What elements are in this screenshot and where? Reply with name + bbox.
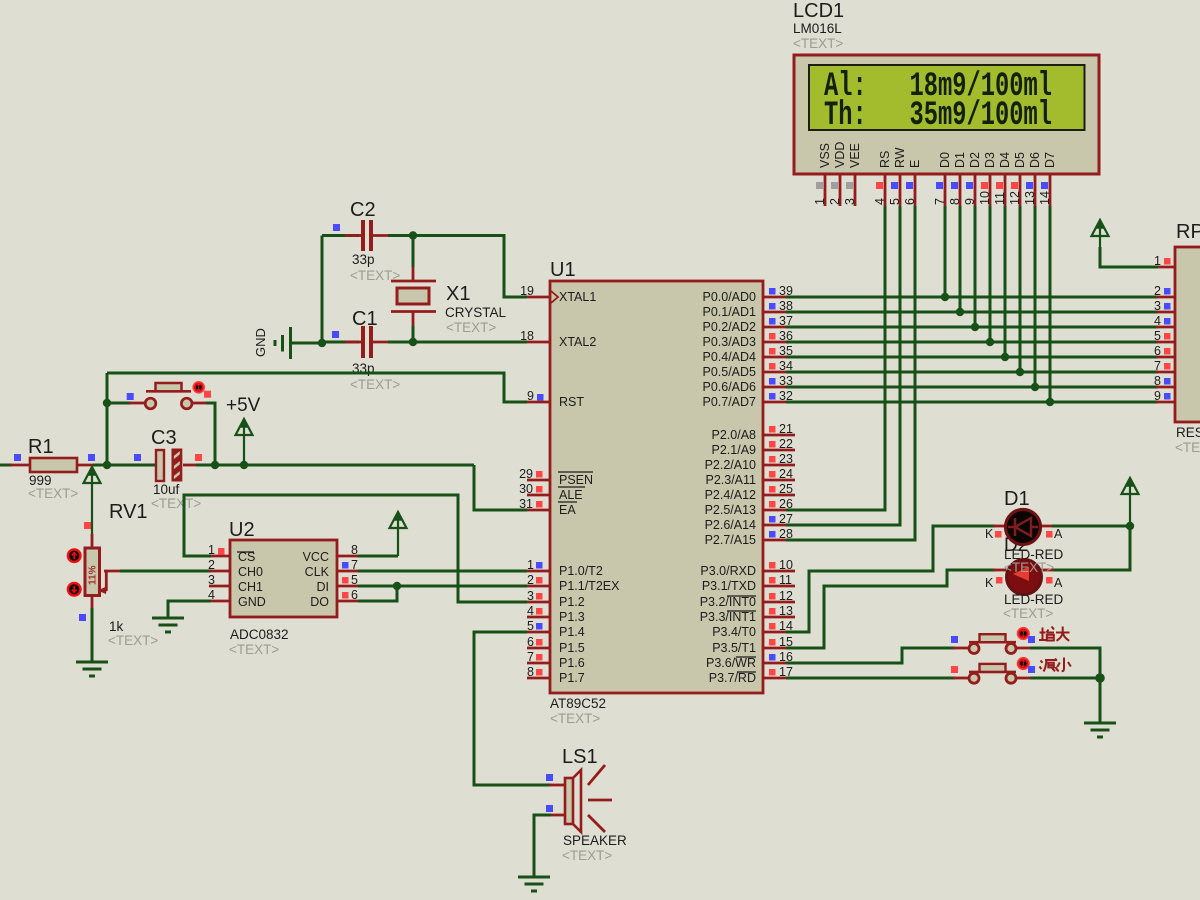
svg-text:3: 3: [208, 573, 215, 587]
svg-text:PSEN: PSEN: [559, 473, 593, 487]
svg-text:LM016L: LM016L: [793, 21, 842, 36]
svg-text:CLK: CLK: [305, 565, 330, 579]
speaker LS1: [546, 746, 627, 863]
U2 pin 4 GND: [208, 588, 230, 602]
svg-text:24: 24: [779, 467, 793, 481]
svg-text:XTAL1: XTAL1: [559, 290, 596, 304]
capacitor C2 33p: [333, 199, 400, 283]
svg-text:<TEXT>: <TEXT>: [1175, 440, 1200, 455]
svg-text:<TEXT>: <TEXT>: [1003, 606, 1053, 621]
microcontroller U1 AT89C52 body: [550, 259, 763, 726]
U2 pin 6 DO: [337, 588, 360, 602]
svg-text:D1: D1: [953, 152, 967, 168]
ground below speaker: [518, 876, 550, 879]
svg-text:6: 6: [527, 635, 534, 649]
RP1 pin 3: [1154, 299, 1170, 313]
junction D2/P0.2: [971, 323, 979, 331]
svg-text:P0.4/AD4: P0.4/AD4: [702, 350, 756, 364]
wire GND node to C1 left: [322, 341, 359, 344]
svg-text:7: 7: [351, 558, 358, 572]
svg-text:VCC: VCC: [303, 550, 329, 564]
svg-text:P1.4: P1.4: [559, 625, 585, 639]
RV1 wiper arrow to U2 CH0: [98, 571, 123, 594]
svg-text:P3.5/T1: P3.5/T1: [712, 641, 756, 655]
U1 pin 29 PSEN: [519, 467, 593, 487]
ground GND power symbol: [253, 327, 291, 359]
svg-text:3: 3: [1154, 299, 1161, 313]
wire P0.1 bus row: [786, 311, 1158, 314]
junction D5/P0.5: [1016, 368, 1024, 376]
svg-text:P2.0/A8: P2.0/A8: [712, 428, 757, 442]
svg-text:3: 3: [843, 198, 857, 205]
wire P0.0 bus row: [786, 296, 1158, 299]
junction LED anode node: [1126, 522, 1134, 530]
wire GND symbol to node: [292, 342, 322, 345]
svg-text:2: 2: [208, 558, 215, 572]
junction D7/P0.7: [1046, 398, 1054, 406]
wire LCD RW to U1 P2.6: [786, 206, 900, 525]
wire LCD D6 to P0.6: [1034, 206, 1037, 387]
svg-text:<TEXT>: <TEXT>: [446, 320, 496, 335]
junction R1/C3 node: [103, 461, 111, 469]
svg-text:VEE: VEE: [848, 143, 862, 168]
wire C2 left down to GND node: [321, 236, 324, 344]
power +5V arrow: [226, 395, 261, 465]
LCD pin 5 RW: [888, 147, 907, 206]
ground below U2: [152, 617, 184, 620]
svg-text:P3.1/TXD: P3.1/TXD: [702, 579, 756, 593]
LCD pin 2 VDD: [828, 142, 847, 206]
wire RV1 wiper to U2 CH0: [120, 570, 211, 573]
svg-text:RP1: RP1: [1176, 221, 1200, 243]
svg-text:D6: D6: [1028, 152, 1042, 168]
power arrow above D1: [1122, 478, 1139, 526]
wire LCD D7 to P0.7: [1049, 206, 1052, 402]
svg-text:GND: GND: [253, 328, 268, 357]
svg-text:CH0: CH0: [238, 565, 263, 579]
U1 pin 17 P3.7/RD: [709, 665, 795, 685]
svg-text:EA: EA: [559, 503, 576, 517]
svg-text:<TEXT>: <TEXT>: [28, 486, 78, 501]
svg-text:P2.7/A15: P2.7/A15: [705, 533, 756, 547]
wire C2 right to node: [373, 234, 390, 237]
push button reset: [127, 382, 211, 409]
svg-text:4: 4: [1154, 314, 1161, 328]
LCD pin 11 D4: [993, 152, 1012, 206]
svg-text:AT89C52: AT89C52: [550, 696, 606, 711]
svg-text:1: 1: [813, 198, 827, 205]
RP1 pin 2: [1154, 284, 1170, 298]
wire power to RP1 pin 1: [1100, 247, 1158, 267]
wire P0.2 bus row: [786, 326, 1158, 329]
ground below RV1: [76, 661, 108, 664]
svg-text:RESPACK-8: RESPACK-8: [1176, 425, 1200, 440]
wire left edge to R1: [0, 464, 12, 467]
svg-text:RW: RW: [893, 147, 907, 168]
svg-text:<TEXT>: <TEXT>: [350, 377, 400, 392]
LCD pin 10 D3: [978, 152, 997, 206]
wire LCD D1 to P0.1: [959, 206, 962, 312]
RP1 pin 1: [1154, 254, 1175, 268]
wire U2 CLK to U1 P1.0: [358, 570, 527, 573]
U1 pin 11 P3.1/TXD: [702, 573, 795, 593]
resistor R1 999: [14, 436, 95, 501]
svg-text:P2.6/A14: P2.6/A14: [705, 518, 756, 532]
svg-text:P0.1/AD1: P0.1/AD1: [702, 305, 756, 319]
LCD pin 3 VEE: [843, 143, 862, 206]
svg-text:5: 5: [888, 198, 902, 205]
svg-text:23: 23: [779, 452, 793, 466]
U1 pin 37 P0.2/AD2: [702, 314, 795, 334]
svg-text:10: 10: [779, 558, 793, 572]
svg-text:E: E: [908, 160, 922, 168]
svg-text:9: 9: [963, 198, 977, 205]
U1 pin 6 P1.5: [527, 635, 585, 655]
svg-text:12: 12: [779, 589, 793, 603]
wire U1 P3.5 to LED D2 cathode: [786, 570, 995, 648]
U1 pin 4 P1.3: [527, 604, 585, 624]
svg-text:K: K: [985, 527, 994, 541]
U2 pin 2 CH0: [208, 558, 230, 572]
svg-text:10: 10: [978, 191, 992, 205]
svg-text:ADC0832: ADC0832: [230, 627, 289, 642]
power arrow above U2 VCC: [390, 512, 407, 528]
svg-text:29: 29: [519, 467, 533, 481]
wire U2 DO to DI node: [358, 586, 397, 601]
svg-text:P1.0/T2: P1.0/T2: [559, 564, 603, 578]
junction D0/P0.0: [941, 293, 949, 301]
wire bottom node to XTAL2: [413, 341, 527, 344]
svg-text:P1.6: P1.6: [559, 656, 585, 670]
U1 pin 3 P1.2: [527, 589, 585, 609]
RV1 actuator knobs: [68, 549, 81, 595]
wire node to ground: [1099, 678, 1102, 723]
svg-text:K: K: [985, 576, 994, 590]
svg-text:1: 1: [527, 558, 534, 572]
svg-text:1k: 1k: [109, 619, 124, 634]
svg-text:U1: U1: [550, 259, 576, 281]
svg-text:14: 14: [1038, 191, 1052, 205]
svg-text:25: 25: [779, 482, 793, 496]
U1 pin 34 P0.5/AD5: [702, 359, 795, 379]
wire P0.5 bus row: [786, 371, 1158, 374]
wire P0.4 bus row: [786, 356, 1158, 359]
svg-text:P3.7/RD: P3.7/RD: [709, 671, 756, 685]
wire LCD RS to U1 P2.5: [786, 206, 885, 510]
wire X1 bottom pin: [412, 311, 415, 327]
svg-text:4: 4: [527, 604, 534, 618]
junction +5V rail at arrow: [240, 461, 248, 469]
svg-text:13: 13: [1023, 191, 1037, 205]
svg-text:A: A: [1054, 576, 1063, 590]
junction D1/P0.1: [956, 308, 964, 316]
svg-text:7: 7: [1154, 359, 1161, 373]
U1 pin 15 P3.5/T1: [712, 635, 795, 655]
svg-text:LS1: LS1: [562, 746, 598, 768]
U1 pin 12 P3.2/INT0: [700, 589, 795, 609]
U1 pin 1 P1.0/T2: [527, 558, 603, 578]
U1 pin 8 P1.7: [527, 665, 585, 685]
svg-text:A: A: [1054, 527, 1063, 541]
capacitor C3 10uf electrolytic: [134, 427, 202, 511]
RP1 pin 9: [1154, 389, 1170, 403]
svg-text:+5V: +5V: [226, 395, 261, 416]
svg-text:P0.2/AD2: P0.2/AD2: [702, 320, 756, 334]
LCD pin 8 D1: [948, 152, 967, 206]
ADC U2 ADC0832 body: [229, 519, 337, 657]
svg-text:D7: D7: [1043, 152, 1057, 168]
svg-text:11%: 11%: [88, 565, 99, 585]
power arrow above RV1: [84, 467, 101, 548]
LCD display LCD1 labels: [793, 0, 844, 51]
svg-text:Th: 35m9/100ml: Th: 35m9/100ml: [824, 95, 1052, 135]
wire C1 right to node: [373, 341, 390, 344]
svg-text:<TEXT>: <TEXT>: [562, 848, 612, 863]
svg-text:X1: X1: [446, 283, 470, 305]
svg-text:<TEXT>: <TEXT>: [151, 496, 201, 511]
U1 pin 25 P2.4/A12: [705, 482, 795, 502]
svg-text:D1: D1: [1004, 488, 1030, 510]
RP1 pin 4: [1154, 314, 1170, 328]
RP1 pin 6: [1154, 344, 1170, 358]
ground below buttons: [1084, 722, 1116, 725]
U1 pin 24 P2.3/A11: [705, 467, 795, 487]
U2 pin 7 CLK: [337, 558, 360, 572]
svg-text:D0: D0: [938, 152, 952, 168]
svg-text:C2: C2: [350, 199, 376, 221]
svg-text:<TEXT>: <TEXT>: [108, 633, 158, 648]
wire U1 P1.4 to speaker: [474, 632, 551, 785]
wire RST top run to U1 RST pin: [107, 373, 527, 402]
svg-text:21: 21: [779, 422, 793, 436]
U1 pin 5 P1.4: [527, 619, 585, 639]
U1 pin 13 P3.3/INT1: [700, 604, 795, 624]
wire +5V rail to EA pin: [474, 465, 527, 510]
svg-text:11: 11: [779, 573, 792, 587]
wire R1 to reset node: [77, 464, 95, 467]
svg-text:P3.6/WR: P3.6/WR: [706, 656, 756, 670]
svg-text:VDD: VDD: [833, 142, 847, 168]
LCD pin 7 D0: [933, 152, 952, 206]
LCD pin 1 VSS: [813, 143, 832, 206]
capacitor C1 33p: [332, 308, 400, 392]
svg-text:ALE: ALE: [559, 488, 583, 502]
wire LCD D2 to P0.2: [974, 206, 977, 327]
junction reset button tap: [103, 399, 111, 407]
svg-text:D4: D4: [998, 152, 1012, 168]
junction GND node: [318, 339, 326, 347]
potentiometer RV1 1k: [79, 501, 158, 648]
svg-text:5: 5: [351, 573, 358, 587]
svg-text:P0.7/AD7: P0.7/AD7: [702, 395, 756, 409]
svg-text:P1.1/T2EX: P1.1/T2EX: [559, 579, 620, 593]
wire anode node to LED D2: [1052, 526, 1130, 570]
U1 pin 30 ALE: [519, 482, 585, 502]
junction C2/X1 top node: [409, 231, 417, 239]
svg-text:P1.2: P1.2: [559, 595, 585, 609]
svg-text:R1: R1: [28, 436, 54, 458]
svg-text:11: 11: [993, 192, 1007, 205]
svg-text:9: 9: [1154, 389, 1161, 403]
junction D3/P0.3: [986, 338, 994, 346]
wire U2 DI to U1 P1.1: [358, 585, 527, 588]
svg-text:30: 30: [519, 482, 533, 496]
U2 pin 5 DI: [337, 573, 360, 587]
LCD pin 4 RS: [873, 151, 892, 206]
wire button 2 to ground node: [1016, 677, 1032, 680]
svg-text:CH1: CH1: [238, 580, 263, 594]
svg-text:9: 9: [527, 389, 534, 403]
svg-text:8: 8: [948, 198, 962, 205]
svg-text:RV1: RV1: [109, 501, 148, 523]
svg-text:P2.3/A11: P2.3/A11: [705, 473, 756, 487]
svg-text:P2.5/A13: P2.5/A13: [705, 503, 756, 517]
wire LCD D0 to P0.0: [944, 206, 947, 297]
U1 pin 31 EA: [519, 497, 577, 517]
svg-text:P1.3: P1.3: [559, 610, 585, 624]
U1 pin 22 P2.1/A9: [712, 437, 795, 457]
LCD display LCD1 body LM016L: [794, 55, 1099, 174]
svg-text:P0.6/AD6: P0.6/AD6: [702, 380, 756, 394]
junction C1/X1 bottom node: [409, 338, 417, 346]
wire P0.7 bus row: [786, 401, 1158, 404]
svg-text:2: 2: [1154, 284, 1161, 298]
svg-text:8: 8: [351, 543, 358, 557]
wire P0.3 bus row: [786, 341, 1158, 344]
svg-text:DO: DO: [310, 595, 329, 609]
svg-text:5: 5: [527, 619, 534, 633]
svg-text:P3.0/RXD: P3.0/RXD: [700, 564, 756, 578]
U1 pin 19 XTAL1: [520, 284, 596, 304]
U1 pin 36 P0.3/AD3: [702, 329, 795, 349]
wire U1 P3.4 to LED D1 cathode: [786, 526, 995, 632]
wire U2 CS to U1 P1.2: [184, 495, 527, 602]
svg-text:P3.3/INT1: P3.3/INT1: [700, 610, 756, 624]
svg-text:5: 5: [1154, 329, 1161, 343]
wire LCD E to U1 P2.7: [786, 206, 915, 540]
svg-text:D5: D5: [1013, 152, 1027, 168]
svg-text:P2.4/A12: P2.4/A12: [705, 488, 756, 502]
resistor pack RP1: [1175, 221, 1200, 455]
svg-text:8: 8: [1154, 374, 1161, 388]
U1 pin 16 P3.6/WR: [706, 650, 795, 670]
U1 pin 7 P1.6: [527, 650, 585, 670]
LED D1 anode wire to power node: [1040, 525, 1054, 528]
LCD pin 9 D2: [963, 152, 982, 206]
svg-text:3: 3: [527, 589, 534, 603]
junction button ground node: [1095, 673, 1105, 683]
wire U1 P3.7 to button 2: [786, 677, 955, 680]
svg-text:6: 6: [903, 198, 917, 205]
U1 pin 2 P1.1/T2EX: [527, 573, 620, 593]
svg-text:RST: RST: [559, 395, 584, 409]
wire RV1 bottom to ground: [91, 594, 94, 610]
wire LCD D4 to P0.4: [1004, 206, 1007, 357]
U1 pin 32 P0.7/AD7: [702, 389, 795, 409]
LCD pin 13 D6: [1023, 152, 1042, 206]
push button decrease (jian xiao): [969, 664, 1016, 683]
svg-text:22: 22: [779, 437, 793, 451]
power arrow RP1 pin1: [1092, 220, 1109, 236]
svg-text:<TEXT>: <TEXT>: [793, 36, 843, 51]
wire button to C3 right node: [192, 402, 208, 405]
svg-text:U2: U2: [229, 519, 255, 541]
wire C3 right to +5V rail: [183, 464, 198, 467]
LCD pin 6 E: [903, 160, 922, 206]
U1 pin 35 P0.4/AD4: [702, 344, 795, 364]
svg-text:P1.7: P1.7: [559, 671, 585, 685]
svg-text:33p: 33p: [352, 252, 375, 267]
svg-text:12: 12: [1008, 191, 1022, 205]
svg-text:7: 7: [933, 198, 947, 205]
LCD pin 14 D7: [1038, 152, 1057, 206]
U1 pin 39 P0.0/AD0: [702, 284, 795, 304]
svg-text:P0.3/AD3: P0.3/AD3: [702, 335, 756, 349]
wire speaker to ground: [549, 814, 565, 817]
wire LCD D5 to P0.5: [1019, 206, 1022, 372]
U1 pin 33 P0.6/AD6: [702, 374, 795, 394]
LED D2 LED-RED: [985, 560, 1064, 622]
svg-text:D3: D3: [983, 152, 997, 168]
wire U1 P3.6 to button 1: [786, 648, 955, 663]
U1 pin 38 P0.1/AD1: [702, 299, 795, 319]
push button increase (zeng da): [969, 634, 1016, 653]
wire U2 VCC to power: [358, 555, 398, 558]
wire X1 top pin: [412, 266, 415, 282]
junction D4/P0.4: [1001, 353, 1009, 361]
U2 pin 1 CS: [208, 543, 230, 557]
crystal X1 CRYSTAL: [391, 281, 507, 335]
svg-text:P3.4/T0: P3.4/T0: [712, 625, 756, 639]
svg-text:RS: RS: [878, 151, 892, 168]
svg-text:LCD1: LCD1: [793, 0, 844, 22]
LED D1 LED-RED: [985, 488, 1064, 562]
RP1 pin 7: [1154, 359, 1170, 373]
U1 pin 23 P2.2/A10: [705, 452, 795, 472]
junction D6/P0.6: [1031, 383, 1039, 391]
svg-text:8: 8: [527, 665, 534, 679]
wire reset tap to button: [107, 402, 131, 405]
svg-text:CRYSTAL: CRYSTAL: [445, 305, 507, 320]
svg-text:SPEAKER: SPEAKER: [563, 833, 627, 848]
wire P0.6 bus row: [786, 386, 1158, 389]
svg-text:VSS: VSS: [818, 143, 832, 168]
svg-text:P2.2/A10: P2.2/A10: [705, 458, 756, 472]
svg-text:<TEXT>: <TEXT>: [229, 642, 279, 657]
U1 pin 18 XTAL2: [520, 329, 596, 349]
svg-text:13: 13: [779, 604, 793, 618]
U1 pin 14 P3.4/T0: [712, 619, 795, 639]
RP1 pin 5: [1154, 329, 1170, 343]
svg-text:D2: D2: [968, 152, 982, 168]
svg-text:LED-RED: LED-RED: [1004, 592, 1064, 607]
RP1 pin 8: [1154, 374, 1170, 388]
svg-text:P1.5: P1.5: [559, 641, 585, 655]
wire button 1 to ground node: [1016, 647, 1032, 650]
wire LCD D3 to P0.3: [989, 206, 992, 342]
svg-text:GND: GND: [238, 595, 266, 609]
U1 pin 10 P3.0/RXD: [700, 558, 795, 578]
label increase chinese: [1039, 627, 1070, 641]
svg-text:P2.1/A9: P2.1/A9: [712, 443, 757, 457]
wire U2 GND to ground: [168, 601, 211, 618]
svg-text:<TEXT>: <TEXT>: [550, 711, 600, 726]
svg-text:C3: C3: [151, 427, 177, 449]
svg-text:XTAL2: XTAL2: [559, 335, 596, 349]
svg-text:6: 6: [351, 588, 358, 602]
wire C2 left to corner: [322, 234, 359, 237]
wire top node to XTAL1: [413, 236, 527, 298]
